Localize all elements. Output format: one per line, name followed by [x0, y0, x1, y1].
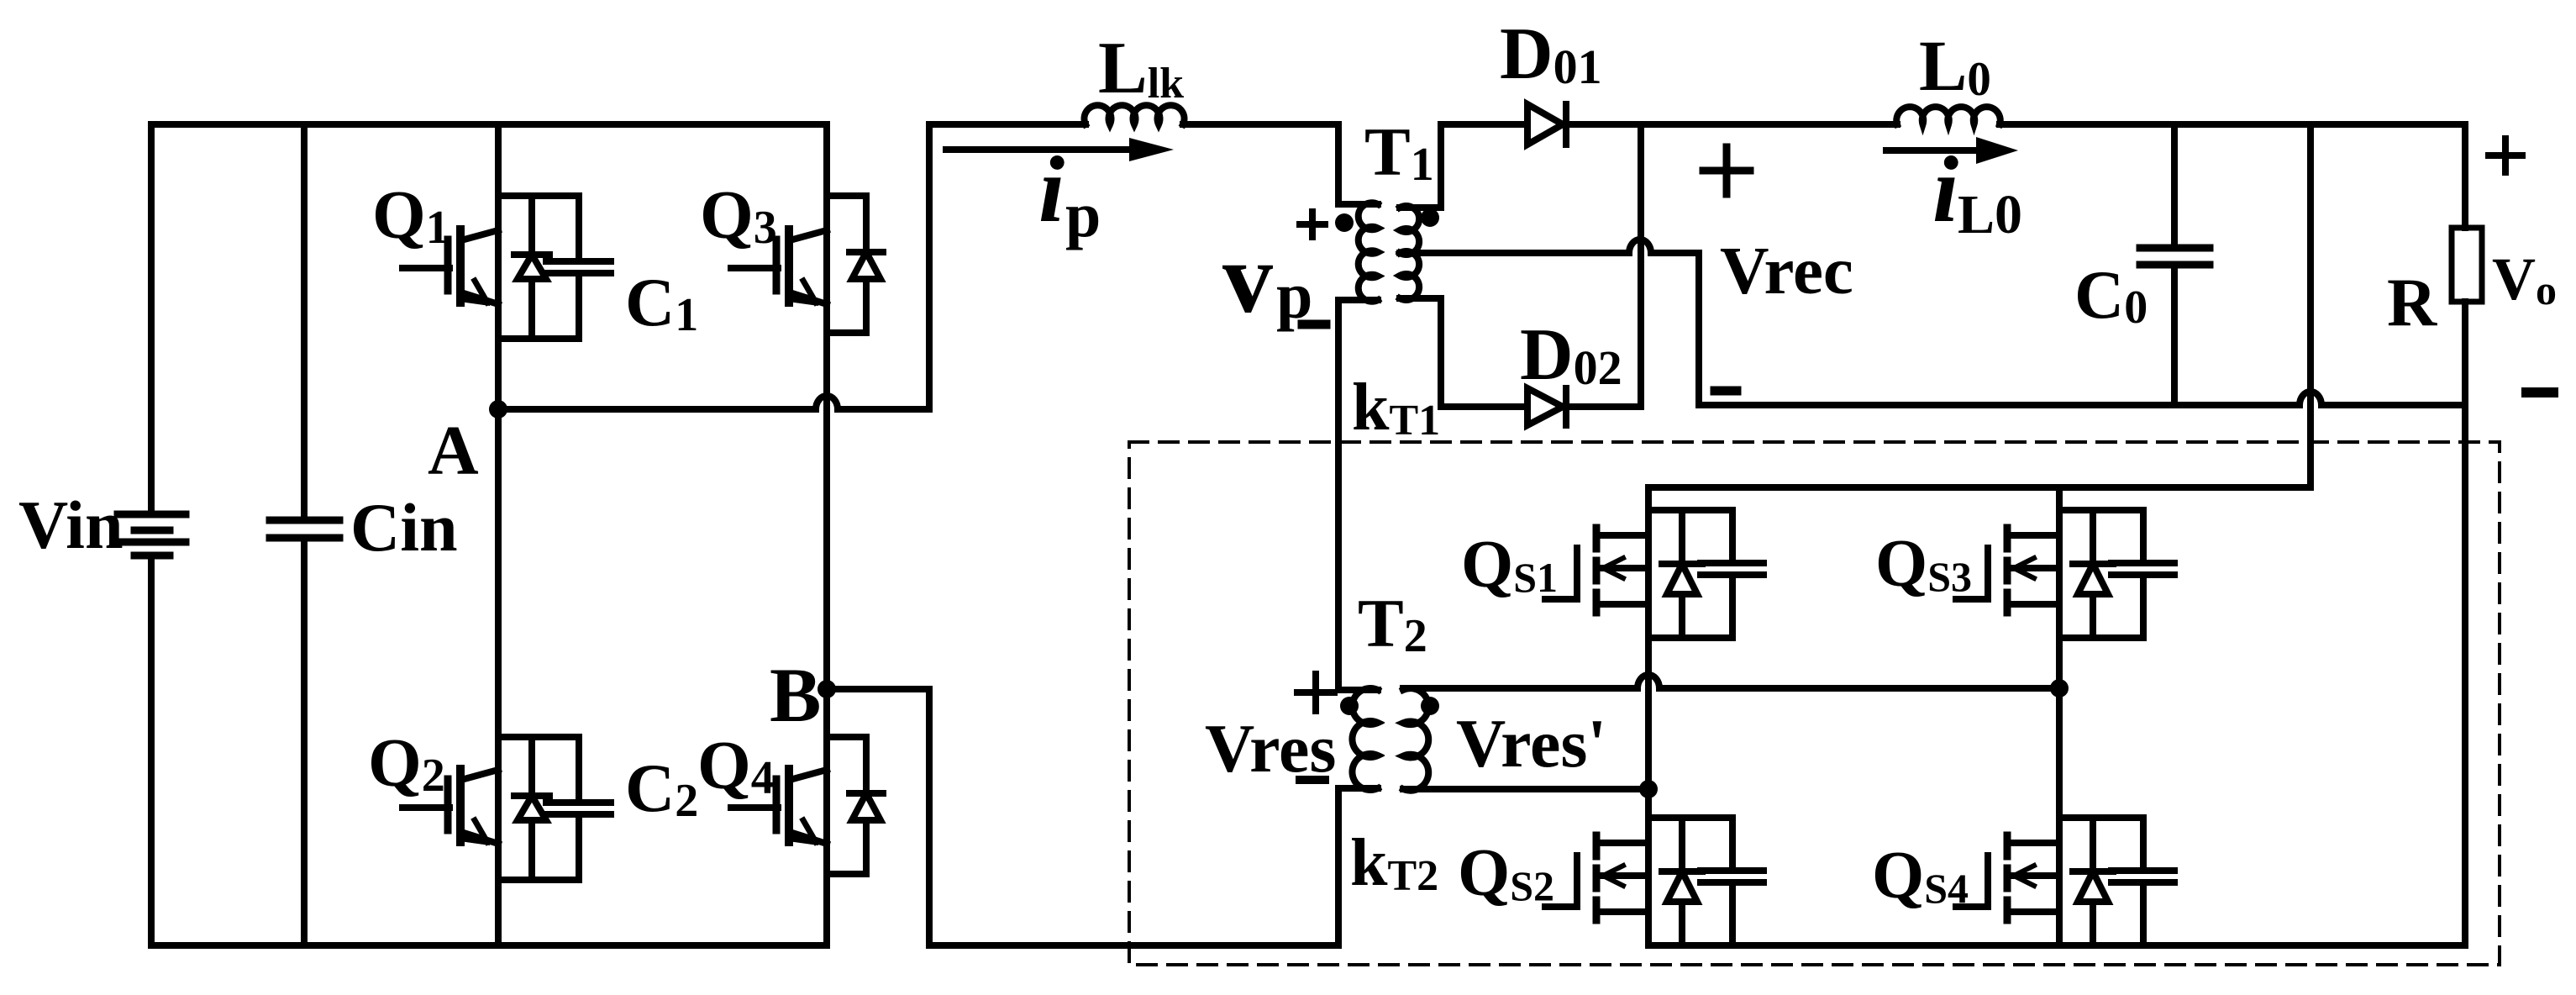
svg-text:p: p — [1276, 259, 1312, 332]
svg-text:L0: L0 — [1958, 184, 2022, 245]
svg-text:Vin: Vin — [18, 487, 124, 563]
svg-text:Vrec: Vrec — [1720, 233, 1853, 308]
svg-text:i: i — [1038, 138, 1065, 242]
svg-text:v: v — [1222, 222, 1273, 334]
svg-text:A: A — [428, 412, 479, 490]
svg-text:Cin: Cin — [350, 489, 458, 566]
svg-text:i: i — [1932, 138, 1958, 242]
svg-text:p: p — [1065, 180, 1101, 250]
svg-text:Vres': Vres' — [1456, 705, 1606, 782]
svg-text:R: R — [2387, 264, 2437, 340]
svg-text:Vres: Vres — [1205, 710, 1336, 787]
svg-text:B: B — [770, 652, 821, 738]
